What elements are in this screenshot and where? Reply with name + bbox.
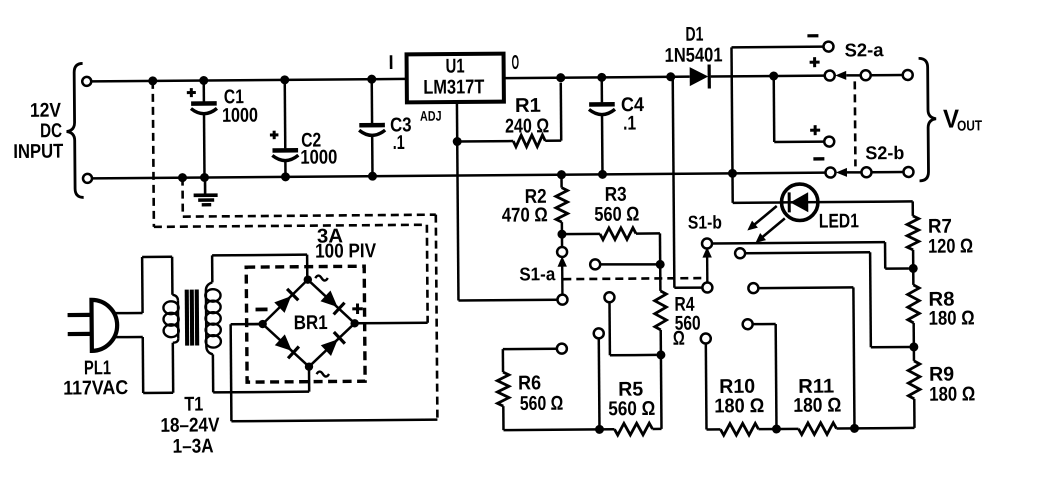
svg-text:1000: 1000 — [300, 146, 337, 168]
svg-text:T1: T1 — [184, 393, 203, 415]
svg-text:OUT: OUT — [957, 118, 982, 134]
svg-text:S2-b: S2-b — [865, 142, 904, 163]
svg-text:PL1: PL1 — [84, 357, 111, 379]
svg-text:LED1: LED1 — [819, 210, 859, 232]
svg-text:18–24V: 18–24V — [160, 414, 220, 436]
svg-text:.1: .1 — [623, 113, 636, 135]
svg-text:I: I — [389, 52, 394, 74]
svg-text:180 Ω: 180 Ω — [714, 395, 764, 417]
svg-text:1N5401: 1N5401 — [664, 44, 722, 66]
svg-text:R7: R7 — [928, 216, 952, 238]
svg-text:R6: R6 — [518, 372, 541, 394]
svg-text:ADJ: ADJ — [420, 108, 442, 124]
svg-text:1–3A: 1–3A — [173, 435, 214, 457]
svg-text:560 Ω: 560 Ω — [594, 204, 639, 226]
svg-text:120 Ω: 120 Ω — [928, 235, 973, 257]
svg-text:U1: U1 — [446, 55, 465, 77]
svg-text:470 Ω: 470 Ω — [502, 204, 548, 226]
svg-text:LM317T: LM317T — [423, 76, 484, 98]
svg-text:DC: DC — [40, 120, 62, 142]
svg-text:S2-a: S2-a — [844, 39, 884, 60]
svg-text:R1: R1 — [515, 95, 541, 117]
svg-text:180 Ω: 180 Ω — [929, 307, 975, 329]
svg-text:D1: D1 — [685, 24, 703, 46]
svg-text:.1: .1 — [393, 132, 405, 154]
svg-text:BR1: BR1 — [294, 312, 328, 334]
svg-text:100 PIV: 100 PIV — [315, 240, 377, 262]
svg-text:560 Ω: 560 Ω — [520, 393, 564, 415]
svg-text:S1-b: S1-b — [688, 211, 722, 232]
svg-text:180 Ω: 180 Ω — [793, 394, 841, 416]
svg-text:1000: 1000 — [222, 105, 258, 127]
svg-text:Ω: Ω — [673, 328, 685, 350]
svg-text:R3: R3 — [605, 184, 627, 206]
svg-text:240 Ω: 240 Ω — [505, 115, 549, 137]
svg-text:12V: 12V — [30, 100, 62, 122]
svg-text:117VAC: 117VAC — [63, 377, 128, 400]
svg-text:O: O — [512, 52, 520, 74]
svg-text:180 Ω: 180 Ω — [929, 383, 975, 405]
svg-text:S1-a: S1-a — [519, 263, 556, 284]
svg-text:INPUT: INPUT — [13, 141, 63, 163]
svg-text:560 Ω: 560 Ω — [608, 398, 655, 420]
svg-text:R9: R9 — [929, 364, 954, 386]
